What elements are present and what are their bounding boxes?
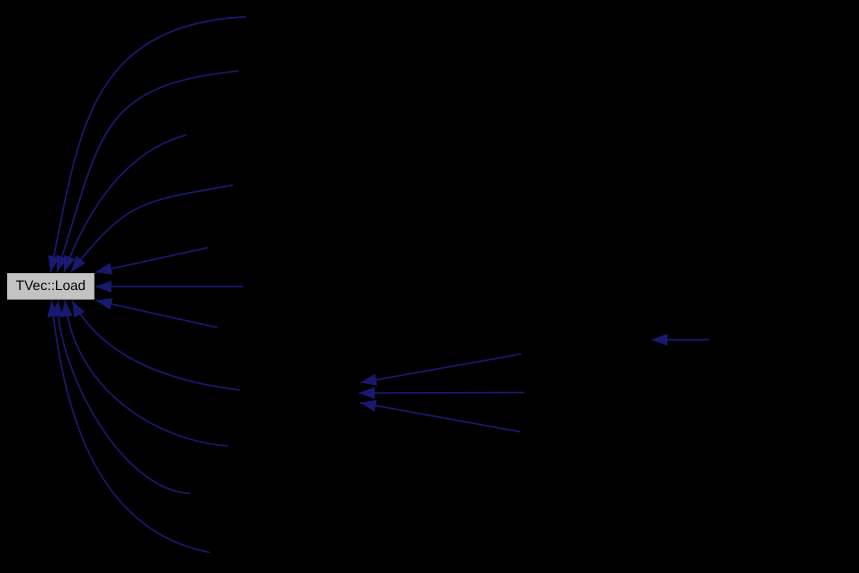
edge arrow E13 (middle cluster horizontal) [359,392,525,395]
edge arrow E2 [57,71,239,272]
edge arrow E5 (to top-right corner) [96,248,208,273]
edge arrow E12 (middle cluster top) [361,354,522,383]
node TVec::Load (grey box) [7,273,94,300]
edge arrow E4 [71,185,233,272]
edge arrow E6 (horizontal) [96,286,244,288]
edge arrow E7 (to bottom-right corner) [96,301,218,328]
edge arrow E10 [58,301,191,494]
edge arrow E9 [65,301,228,446]
edge arrow E15 (right single) [652,339,710,341]
edge arrow E8 (bottom fan) [72,301,240,390]
edge arrow E11 (bottom fan outermost) [52,301,210,553]
edge arrow E1 (top fan outermost) [51,17,247,272]
edge arrow E14 (middle cluster bottom) [360,403,520,432]
edge arrow E3 [64,135,186,272]
svg-text:TVec::Load: TVec::Load [16,278,86,293]
